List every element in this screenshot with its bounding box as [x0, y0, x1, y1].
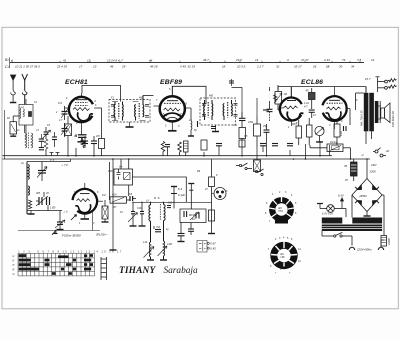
IF transformer T2 (dashed box) — [200, 98, 236, 125]
AM trimmer cluster — [43, 127, 51, 156]
mains switch — [322, 231, 352, 246]
svg-text:25 4 35: 25 4 35 — [56, 64, 67, 68]
svg-text:1.2k: 1.2k — [304, 101, 310, 105]
svg-text:R: R — [13, 269, 15, 272]
misc value labels — [7, 93, 377, 225]
resistor R4 — [99, 108, 105, 156]
tube ECL86 pentode — [323, 87, 351, 130]
osc coil C (variable) — [144, 242, 155, 260]
AM antenna coil pair — [25, 125, 44, 150]
svg-text:0.1μF: 0.1μF — [178, 193, 185, 197]
svg-text:23.8: 23.8 — [235, 58, 242, 62]
heater tap 2 — [188, 184, 194, 191]
svg-text:AF: AF — [385, 150, 390, 153]
ground (osc cathode) — [81, 210, 93, 231]
legend box — [197, 241, 209, 253]
PU terminals — [376, 77, 397, 92]
svg-text:15.7: 15.7 — [365, 77, 371, 81]
svg-text:0.67: 0.67 — [210, 242, 216, 246]
capacitor C6 (cathode) — [78, 126, 87, 142]
svg-text:5 49 32 33: 5 49 32 33 — [180, 64, 195, 68]
svg-text:EBF89: EBF89 — [160, 79, 182, 86]
IFT2 secondary coil — [223, 100, 232, 120]
svg-text:6.3V 0.3A: 6.3V 0.3A — [322, 213, 333, 216]
output transformer T3 core bars — [364, 93, 379, 132]
svg-text:20 3.5: 20 3.5 — [236, 64, 246, 68]
tube ECL86 triode — [280, 87, 304, 126]
ratio detector box — [180, 209, 206, 223]
band switch box — [114, 159, 191, 209]
svg-text:1M log: 1M log — [330, 141, 338, 144]
wire (ECH81 anode to IFT1) — [82, 85, 120, 101]
svg-text:2.43: 2.43 — [323, 58, 330, 62]
svg-text:H: H — [13, 264, 15, 267]
svg-text:R7: R7 — [113, 205, 117, 209]
svg-text:FÜ20m-38/508: FÜ20m-38/508 — [62, 234, 81, 238]
AM/PU switch contacts — [236, 163, 264, 176]
svg-text:C16: C16 — [137, 207, 142, 210]
bottom middle verticals — [110, 159, 117, 250]
padder capacitors — [36, 181, 50, 211]
pilot lamp — [317, 204, 346, 218]
FM front-end parts — [52, 132, 57, 147]
svg-text:45: 45 — [306, 89, 310, 93]
tube ECH81 — [65, 93, 100, 126]
svg-text:C11: C11 — [168, 202, 173, 205]
svg-text:460: 460 — [139, 97, 144, 100]
svg-text:C4: C4 — [58, 101, 62, 105]
svg-text:1 2 3 5 6 7 8 9 10 11 12 13: 1 2 3 5 6 7 8 9 10 11 12 13 14 15 16 17 — [18, 250, 122, 253]
svg-text:G: G — [13, 273, 15, 276]
socket2 pin numbers — [268, 237, 301, 275]
IFT1 secondary coil — [133, 96, 146, 121]
input band filter box — [19, 99, 33, 140]
rail tap marks — [50, 153, 60, 156]
trimmer (osc) — [55, 211, 65, 230]
oscillator triode (ECH81 triode) — [71, 183, 103, 220]
scale numbers lower row — [15, 64, 355, 68]
osc coil D — [158, 241, 168, 260]
fuse + resistor above rail (x185) — [178, 141, 188, 156]
capacitor C17 + ground — [178, 223, 185, 242]
svg-text:L86: L86 — [281, 256, 286, 259]
svg-text:DZK 6032 4Ω: DZK 6032 4Ω — [391, 111, 395, 127]
svg-text:2x600: 2x600 — [388, 238, 391, 246]
svg-text:25μ: 25μ — [262, 125, 268, 128]
RC pair above rail (x163) — [161, 142, 170, 156]
svg-text:35: 35 — [344, 164, 348, 168]
ground (EBF89 cathode) — [168, 130, 177, 132]
wire (left return) — [3, 110, 5, 159]
svg-text:220V≈50Hz: 220V≈50Hz — [356, 248, 372, 252]
svg-text:10 11 1 38 37 36 0: 10 11 1 38 37 36 0 — [15, 64, 40, 68]
wire (EBF89 anode to IFT2) — [172, 86, 206, 104]
heater 6.3V arrow — [341, 198, 344, 209]
svg-text:8.2k: 8.2k — [340, 131, 343, 136]
wire (vertical feeds above IFT2) — [229, 79, 257, 118]
svg-text:13 24 8 4 7: 13 24 8 4 7 — [107, 58, 123, 62]
resistor R3 + capacitor C7 — [76, 134, 97, 156]
PU jack — [373, 148, 386, 157]
trimmer (AFC) — [128, 202, 138, 226]
svg-text:+B560: +B560 — [359, 194, 367, 198]
svg-text:1 B5: 1 B5 — [50, 206, 56, 210]
svg-text:32: 32 — [276, 64, 280, 68]
svg-text:6.3: 6.3 — [178, 187, 182, 191]
svg-text:D S: D S — [154, 196, 160, 200]
wire (bottom common) — [18, 230, 100, 232]
resistor (between ECL86 halves) — [309, 88, 316, 118]
oscillator tank: coil L6 — [27, 162, 32, 215]
svg-text:18: 18 — [222, 64, 226, 68]
svg-text:17: 17 — [79, 64, 83, 68]
svg-text:28 17: 28 17 — [293, 64, 302, 68]
svg-text:7n0: 7n0 — [156, 226, 161, 229]
dial scale line — [9, 58, 364, 69]
wire (B+ rail upper) — [3, 155, 333, 157]
wire (det line) — [133, 201, 212, 203]
svg-text:U: U — [13, 255, 15, 258]
svg-text:14: 14 — [371, 58, 375, 62]
potentiometer P1 (volume) — [274, 85, 282, 110]
capacitor C14 — [154, 226, 161, 232]
svg-text:H81: H81 — [279, 210, 284, 213]
svg-text:ECL86: ECL86 — [301, 79, 323, 86]
svg-text:230V: 230V — [370, 164, 377, 167]
tuning capacitor CV1 — [27, 159, 71, 181]
svg-text:4.7: 4.7 — [304, 105, 308, 109]
IFT1 primary coil — [112, 102, 123, 121]
socket1 pin numbers — [265, 191, 297, 223]
svg-text:305: 305 — [36, 192, 41, 195]
mid-right pot (tone) — [310, 144, 351, 159]
svg-text:Sarabaja: Sarabaja — [164, 266, 198, 276]
potentiometer P2 — [110, 162, 131, 203]
loudspeaker LS1 — [378, 101, 390, 123]
wire (osc tank bottom) — [27, 211, 62, 215]
ground (x211) — [208, 233, 215, 235]
svg-text:46 7: 46 7 — [203, 58, 209, 62]
svg-text:b h: b h — [50, 158, 55, 162]
svg-text:470k: 470k — [248, 121, 254, 124]
svg-text:1M: 1M — [102, 194, 105, 197]
ground (IFT1) — [126, 122, 134, 127]
svg-text:L10: L10 — [143, 241, 148, 244]
dropper resistor — [381, 236, 387, 247]
svg-text:47.47: 47.47 — [301, 58, 309, 62]
NTC / fuse — [351, 159, 358, 181]
coil switch table — [18, 253, 95, 276]
svg-text:46: 46 — [110, 64, 114, 68]
capacitor C13 — [139, 202, 146, 226]
components above rails (decoupling) — [201, 140, 293, 152]
resistor (X box) — [254, 156, 261, 172]
mains plug L — [349, 247, 354, 250]
ratio detector coil B — [160, 202, 165, 241]
svg-text:1M: 1M — [284, 93, 287, 96]
ECL86 cathode parts — [296, 118, 346, 145]
svg-text:3PL/5Ω―: 3PL/5Ω― — [96, 233, 108, 237]
diode bridge rectifier — [352, 159, 384, 235]
FM dipole ladder — [101, 257, 107, 280]
svg-text:14: 14 — [255, 58, 259, 62]
svg-text:48 28: 48 28 — [150, 64, 158, 68]
svg-text:⊥ b: ⊥ b — [63, 210, 68, 214]
IFT2 primary coil — [204, 100, 213, 120]
trimmer C4 — [61, 106, 69, 120]
coupling capacitor C20 — [263, 109, 269, 111]
IFT1 trim caps — [111, 105, 149, 118]
svg-text:⊥ 7 6: ⊥ 7 6 — [61, 163, 68, 167]
wire (B+ rail lower) — [3, 158, 371, 160]
resistor R2 (under ECH81) — [65, 116, 72, 156]
svg-text:2 2.7: 2 2.7 — [256, 64, 264, 68]
svg-text:73: 73 — [342, 58, 346, 62]
svg-text:230V: 230V — [369, 170, 378, 174]
ratio detector coil A — [149, 202, 151, 242]
svg-text:34: 34 — [351, 64, 355, 68]
svg-text:29: 29 — [121, 64, 126, 68]
antenna AM — [10, 75, 16, 103]
resistor R1 — [10, 116, 19, 136]
svg-text:CW: CW — [108, 169, 113, 173]
extra dial ticks — [60, 61, 350, 63]
capacitor C11 — [167, 206, 171, 208]
wire (rail feeds) — [204, 140, 330, 159]
svg-text:TIHANY: TIHANY — [119, 266, 156, 276]
trimmer C5 — [61, 123, 69, 137]
heater tap — [171, 187, 177, 209]
svg-text:13: 13 — [93, 64, 97, 68]
socket DIN — [212, 188, 227, 200]
mains plug N — [378, 240, 384, 250]
capacitor C8 — [130, 196, 136, 201]
wire (ECL86 anode to OPT) — [350, 87, 372, 145]
wire (top B+ bus right) — [278, 87, 366, 93]
svg-text:44: 44 — [149, 58, 153, 62]
svg-text:0.43: 0.43 — [210, 247, 216, 251]
svg-text:41: 41 — [63, 58, 67, 62]
svg-text:18: 18 — [326, 64, 330, 68]
vertical feed mid-right — [209, 159, 215, 233]
detector stage parts — [239, 87, 277, 147]
table marks — [19, 254, 93, 275]
svg-text:26: 26 — [312, 64, 317, 68]
tube socket diagram ECH81 — [269, 196, 294, 224]
svg-text:30: 30 — [339, 64, 343, 68]
IFT2 trim caps + ground — [202, 104, 238, 132]
power transformer T4 — [322, 218, 382, 232]
capacitor C19 — [188, 223, 194, 236]
svg-text:BF480: BF480 — [189, 214, 197, 217]
wire (IFT1 to EBF89 grid) — [143, 95, 154, 97]
svg-text:7.8: 7.8 — [357, 58, 362, 62]
coil L5 + capacitor (right of EBF89) — [188, 108, 198, 136]
svg-text:N4L 708 0.35: N4L 708 0.35 — [360, 110, 364, 126]
antenna FM dipole — [22, 74, 28, 105]
svg-text:460: 460 — [209, 95, 214, 98]
resistor R2 (X box under pot) — [102, 200, 109, 222]
IF transformer T1 (dashed box) — [109, 100, 150, 123]
tube socket diagram ECL86 — [271, 242, 297, 267]
tube EBF89 — [154, 87, 192, 131]
scale numbers upper row — [11, 58, 375, 63]
